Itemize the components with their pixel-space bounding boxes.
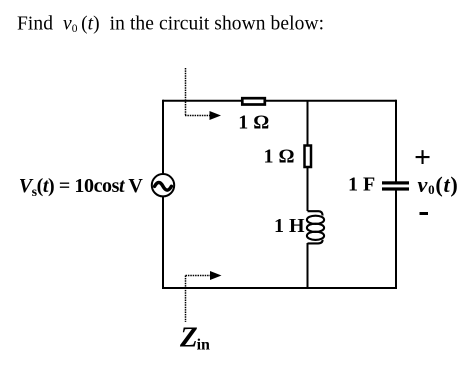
dashed arrow bottom horizontal [186, 275, 212, 277]
inductor L1 [307, 211, 324, 243]
wire: middle branch lower [307, 243, 309, 289]
wire: left vertical upper [162, 100, 164, 174]
wire: left vertical lower [162, 197, 164, 290]
svg-text:+: + [414, 141, 431, 174]
resistor R2 (middle, vertical) [305, 146, 312, 168]
svg-text:Z: Z [179, 322, 198, 354]
svg-text:1 H: 1 H [274, 215, 305, 237]
dashed arrow bottom (Zin probe) vertical [185, 276, 187, 323]
minus sign [420, 212, 429, 215]
voltage source Vs [152, 174, 174, 196]
dashed arrow top (impedance probe) vertical [185, 68, 187, 116]
resistor R1 (top, horizontal) [242, 98, 264, 104]
svg-text:v0(t): v0(t) [418, 172, 459, 197]
svg-text:in: in [197, 337, 210, 354]
wire: middle branch between R2 and L1 [307, 167, 309, 211]
arrowhead top [210, 111, 222, 120]
wire: right vertical lower [395, 191, 397, 290]
wire: middle branch upper [307, 101, 309, 146]
wire: bottom horizontal [163, 287, 396, 289]
dashed arrow top horizontal [185, 115, 211, 117]
capacitor C1 bottom plate [382, 187, 409, 190]
wire: right vertical upper [395, 100, 397, 182]
capacitor C1 top plate [382, 181, 409, 184]
svg-text:1 F: 1 F [348, 174, 375, 196]
svg-text:1 Ω: 1 Ω [238, 112, 269, 134]
wire: top horizontal [163, 100, 396, 102]
svg-text:Find v0(t) in the circuit sh: Find v0(t) in the circuit shown below: [17, 14, 324, 35]
arrowhead bottom [210, 271, 222, 280]
svg-text:Vs(t) = 10cost V: Vs(t) = 10cost V [19, 175, 144, 200]
svg-text:1 Ω: 1 Ω [264, 146, 295, 168]
